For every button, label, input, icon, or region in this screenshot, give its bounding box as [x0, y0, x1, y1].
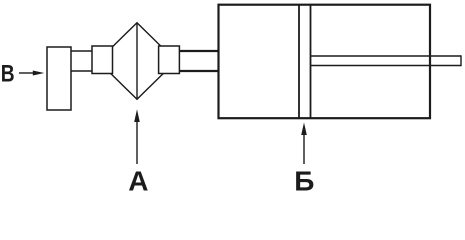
- svg-text:Б: Б: [294, 166, 314, 192]
- svg-text:В: В: [1, 59, 15, 87]
- svg-text:А: А: [128, 166, 148, 192]
